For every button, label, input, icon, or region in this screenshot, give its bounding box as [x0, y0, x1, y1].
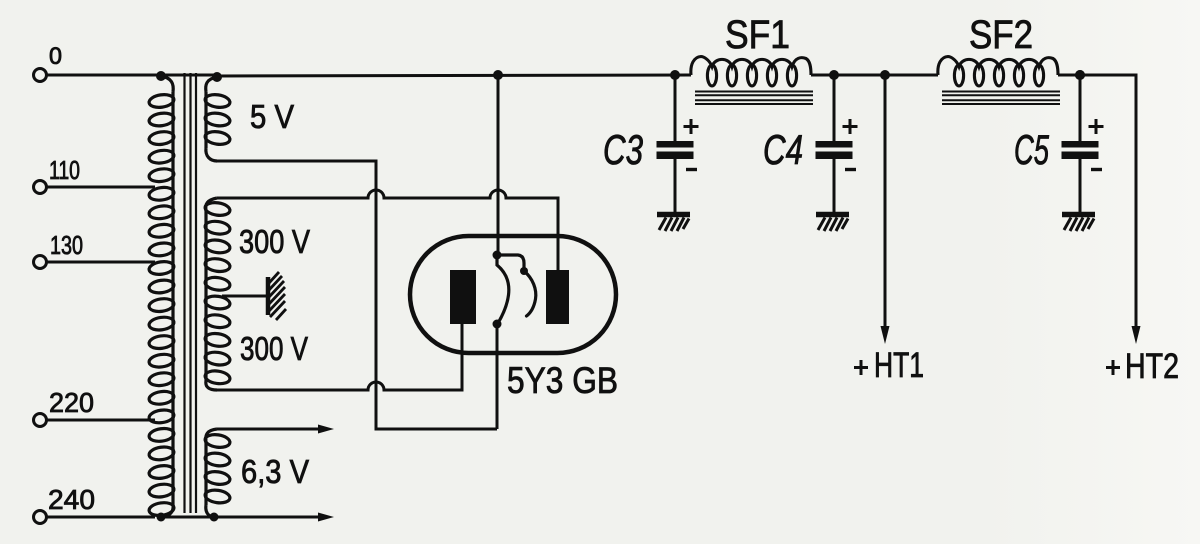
svg-text:300 V: 300 V	[240, 330, 308, 367]
wire filament bottom down	[496, 324, 499, 429]
label +HT2	[1106, 360, 1120, 375]
svg-text:HT1: HT1	[874, 346, 924, 385]
choke SF1 core	[695, 92, 813, 105]
svg-text:110: 110	[49, 155, 80, 185]
svg-text:300 V: 300 V	[239, 223, 310, 260]
svg-text:6,3 V: 6,3 V	[241, 453, 309, 490]
wire terminal 220 to primary	[47, 419, 156, 422]
label +HT1	[854, 360, 868, 375]
svg-text:5Y3 GB: 5Y3 GB	[507, 360, 618, 401]
junction primary top	[156, 71, 166, 81]
junction rail C5	[1075, 70, 1085, 80]
svg-text:C5: C5	[1014, 126, 1049, 173]
choke SF1 winding	[691, 57, 811, 87]
terminal 220	[34, 387, 95, 427]
wire HV bottom to left anode (with crossover)	[217, 324, 462, 390]
chassis ground HV center tap	[268, 272, 286, 320]
transformer T1 primary winding	[148, 76, 174, 517]
junction rail C4	[829, 70, 839, 80]
wire terminal 110 to primary	[47, 186, 156, 189]
wire rail corner to HT2 with arrow	[1133, 75, 1136, 328]
svg-text:C3: C3	[603, 126, 643, 173]
wire HT1 with arrow	[884, 75, 887, 328]
capacitor C3	[674, 75, 677, 213]
terminal 130	[34, 230, 84, 269]
terminal 0	[34, 43, 63, 82]
wire top rail transformer to SF1	[217, 75, 691, 76]
transformer core laminations	[185, 73, 197, 513]
junction rail at tube	[493, 70, 503, 80]
transformer secondary 6.3V winding	[204, 429, 230, 517]
tube filament	[497, 255, 536, 324]
label C5 minus	[1091, 168, 1102, 171]
svg-text:0: 0	[49, 43, 62, 70]
wire rail SF2 to HT2 corner	[1058, 74, 1136, 77]
capacitor C4	[833, 75, 836, 213]
terminal 240	[34, 484, 96, 524]
junction rail C5	[1075, 70, 1085, 80]
junction rail C3	[670, 70, 680, 80]
label C3 minus	[686, 168, 697, 171]
wire rail SF1 to SF2	[811, 74, 938, 77]
junction primary bottom	[157, 513, 166, 522]
svg-text:SF2: SF2	[969, 13, 1033, 57]
tube anode right	[546, 270, 569, 324]
svg-text:C4: C4	[763, 126, 803, 173]
wire 5V bottom to filament return	[217, 161, 497, 429]
rectifier tube 5Y3GB envelope	[410, 236, 616, 353]
chassis ground C4	[816, 215, 849, 232]
wire HV top to right anode (with crossovers)	[217, 190, 558, 270]
wire terminal 240 to primary	[47, 516, 156, 519]
wire 6.3V top with arrow	[217, 428, 326, 431]
chassis ground C5	[1062, 215, 1095, 232]
svg-text:5 V: 5 V	[250, 98, 294, 135]
label C5 plus	[1089, 119, 1104, 134]
label C4 minus	[845, 168, 856, 171]
wire 6.3V bottom with arrow	[160, 516, 326, 519]
junction 5V top	[212, 72, 222, 82]
terminal 110	[34, 155, 81, 194]
tube anode left	[450, 270, 476, 324]
wire rail to filament top	[497, 75, 500, 252]
transformer secondary 300V-300V winding	[204, 198, 230, 390]
label C4 plus	[843, 119, 858, 134]
capacitor C5	[1079, 75, 1082, 213]
svg-text:130: 130	[50, 230, 83, 260]
svg-text:SF1: SF1	[725, 13, 790, 57]
chassis ground C3	[657, 215, 690, 232]
wire HV center tap	[222, 295, 266, 298]
transformer secondary 5V winding	[204, 77, 230, 161]
svg-text:220: 220	[49, 387, 94, 418]
svg-text:HT2: HT2	[1125, 347, 1179, 386]
junction 6.3V bottom	[210, 513, 219, 522]
wire terminal 0 to primary	[47, 74, 219, 77]
label C3 plus	[684, 119, 699, 134]
choke SF2 winding	[938, 57, 1058, 87]
choke SF2 core	[942, 92, 1060, 105]
wire terminal 130 to primary	[47, 261, 156, 264]
junction rail HT1	[880, 70, 890, 80]
svg-text:240: 240	[48, 484, 95, 515]
